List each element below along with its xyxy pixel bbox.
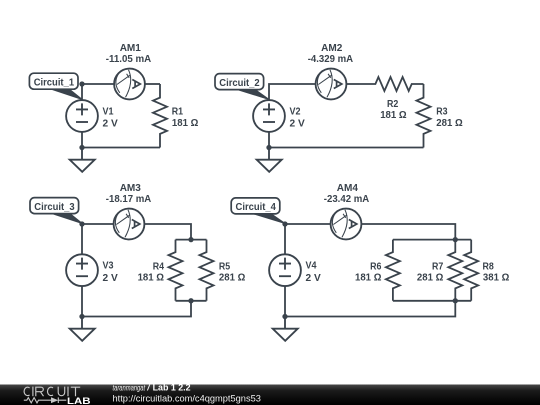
wire circuit3 parallel bottom bar	[176, 300, 207, 302]
node circuit2 bottom junction	[266, 145, 271, 150]
wire circuit4 V4 bottom lead	[284, 286, 286, 316]
svg-text:281 Ω: 281 Ω	[417, 273, 443, 284]
wire circuit1 V1 bottom lead	[81, 132, 83, 148]
wire circuit1 top right: ammeter to R1	[145, 83, 160, 85]
svg-text:2 V: 2 V	[103, 119, 118, 130]
wire circuit3 parallel top bar	[176, 239, 207, 241]
node circuit4 top junction	[282, 221, 287, 226]
wire circuit2 top left: source to ammeter	[269, 84, 316, 100]
ammeter AM2	[316, 69, 347, 100]
svg-text:R3: R3	[436, 107, 448, 118]
svg-text:281 Ω: 281 Ω	[436, 118, 462, 129]
wire circuit4 V4 top lead	[284, 224, 286, 254]
resistor R7	[448, 240, 462, 301]
resistor R1	[153, 84, 167, 148]
wire circuit4 top left: node to ammeter	[285, 223, 331, 225]
svg-text:Circuit_2: Circuit_2	[219, 78, 260, 89]
logo resistor-diode glyph	[24, 397, 67, 403]
wire circuit3 drop to bottom rail	[82, 301, 191, 317]
svg-text:R2: R2	[387, 99, 399, 110]
svg-text:AM1: AM1	[120, 43, 142, 54]
wire circuit1 top left: node to ammeter	[82, 83, 114, 85]
svg-text:V3: V3	[103, 261, 114, 272]
node circuit3 bottom junction	[79, 314, 84, 319]
node circuit4 parallel bottom junction	[453, 298, 458, 303]
wire circuit3 top right: ammeter to parallel pair	[145, 224, 192, 240]
wire circuit1 V1 top lead	[81, 84, 83, 100]
wire circuit4 parallel top bar	[393, 239, 471, 241]
svg-text:2 V: 2 V	[103, 273, 118, 284]
ground circuit3	[70, 317, 95, 341]
svg-text:V2: V2	[290, 107, 301, 118]
voltage source V2 2 V	[253, 100, 285, 132]
svg-text:181 Ω: 181 Ω	[138, 273, 164, 284]
wire circuit3 V3 bottom lead	[81, 286, 83, 316]
wire circuit1 bottom	[82, 147, 160, 149]
svg-text:taranmangat: taranmangat	[113, 383, 146, 393]
node circuit4 parallel top junction	[453, 237, 458, 242]
svg-text:Circuit_1: Circuit_1	[34, 78, 75, 89]
wire circuit2 V2 bottom lead	[268, 132, 270, 148]
svg-text:281 Ω: 281 Ω	[219, 273, 245, 284]
svg-text:2 V: 2 V	[290, 119, 305, 130]
svg-text:R5: R5	[219, 261, 231, 272]
svg-text:V1: V1	[103, 107, 114, 118]
svg-text:Circuit_3: Circuit_3	[34, 202, 75, 213]
svg-text:V4: V4	[306, 261, 317, 272]
resistor R2	[360, 77, 424, 91]
svg-text:AM4: AM4	[337, 183, 359, 194]
wire circuit2 top right: ammeter to R2	[347, 83, 360, 85]
svg-text:AM2: AM2	[321, 43, 343, 54]
ammeter AM3	[114, 209, 145, 240]
svg-text:-11.05 mA: -11.05 mA	[106, 54, 152, 65]
resistor R8	[464, 240, 478, 301]
voltage source V1 2 V	[66, 100, 98, 132]
svg-text:-4.329 mA: -4.329 mA	[308, 54, 354, 65]
svg-text:181 Ω: 181 Ω	[355, 273, 381, 284]
node circuit3 top junction	[79, 221, 84, 226]
logo CIRCUIT text	[24, 387, 80, 397]
resistor R3	[417, 84, 431, 148]
svg-text:2 V: 2 V	[306, 273, 321, 284]
svg-text:R4: R4	[153, 261, 165, 272]
node circuit3 parallel top junction	[188, 237, 193, 242]
ground circuit4	[273, 317, 298, 341]
svg-text:Lab 1 2.2: Lab 1 2.2	[153, 383, 191, 393]
svg-text:Circuit_4: Circuit_4	[236, 202, 277, 213]
wire circuit3 top left: node to ammeter	[82, 223, 114, 225]
svg-text:LAB: LAB	[67, 396, 91, 405]
resistor R5	[200, 240, 214, 301]
net label Circuit_4 callout	[248, 212, 286, 223]
wire circuit2 bottom	[269, 147, 424, 149]
svg-text:-18.17 mA: -18.17 mA	[106, 194, 152, 205]
node circuit3 parallel bottom junction	[188, 298, 193, 303]
node circuit1 bottom junction	[79, 145, 84, 150]
net label Circuit_1 callout	[46, 87, 82, 99]
resistor R6	[386, 240, 400, 301]
svg-text:381 Ω: 381 Ω	[483, 273, 509, 284]
wire circuit3 V3 top lead	[81, 224, 83, 254]
svg-text:R8: R8	[483, 261, 495, 272]
svg-text:R7: R7	[432, 261, 444, 272]
wire circuit4 drop to bottom rail	[285, 301, 455, 317]
ground circuit2	[257, 148, 282, 172]
ammeter AM1	[114, 69, 145, 100]
svg-text:R1: R1	[172, 107, 184, 118]
node circuit1 top junction	[79, 81, 84, 86]
svg-text:181 Ω: 181 Ω	[172, 118, 198, 129]
voltage source V4 2 V	[269, 254, 301, 286]
resistor R4	[169, 240, 183, 301]
ground circuit1	[70, 148, 95, 172]
net label Circuit_2 callout	[232, 88, 270, 100]
net label Circuit_3 callout	[47, 212, 83, 224]
svg-text:AM3: AM3	[120, 183, 142, 194]
svg-text:http://circuitlab.com/c4qgmpt5: http://circuitlab.com/c4qgmpt5gns53	[113, 394, 261, 404]
node circuit4 bottom junction	[282, 314, 287, 319]
wire circuit4 parallel bottom bar	[393, 300, 471, 302]
voltage source V3 2 V	[66, 254, 98, 286]
ammeter AM4	[331, 209, 362, 240]
svg-text:R6: R6	[370, 261, 382, 272]
svg-text:-23.42 mA: -23.42 mA	[324, 194, 370, 205]
wire circuit4 top right: ammeter to parallel group	[362, 224, 456, 240]
svg-text:181 Ω: 181 Ω	[380, 110, 406, 121]
